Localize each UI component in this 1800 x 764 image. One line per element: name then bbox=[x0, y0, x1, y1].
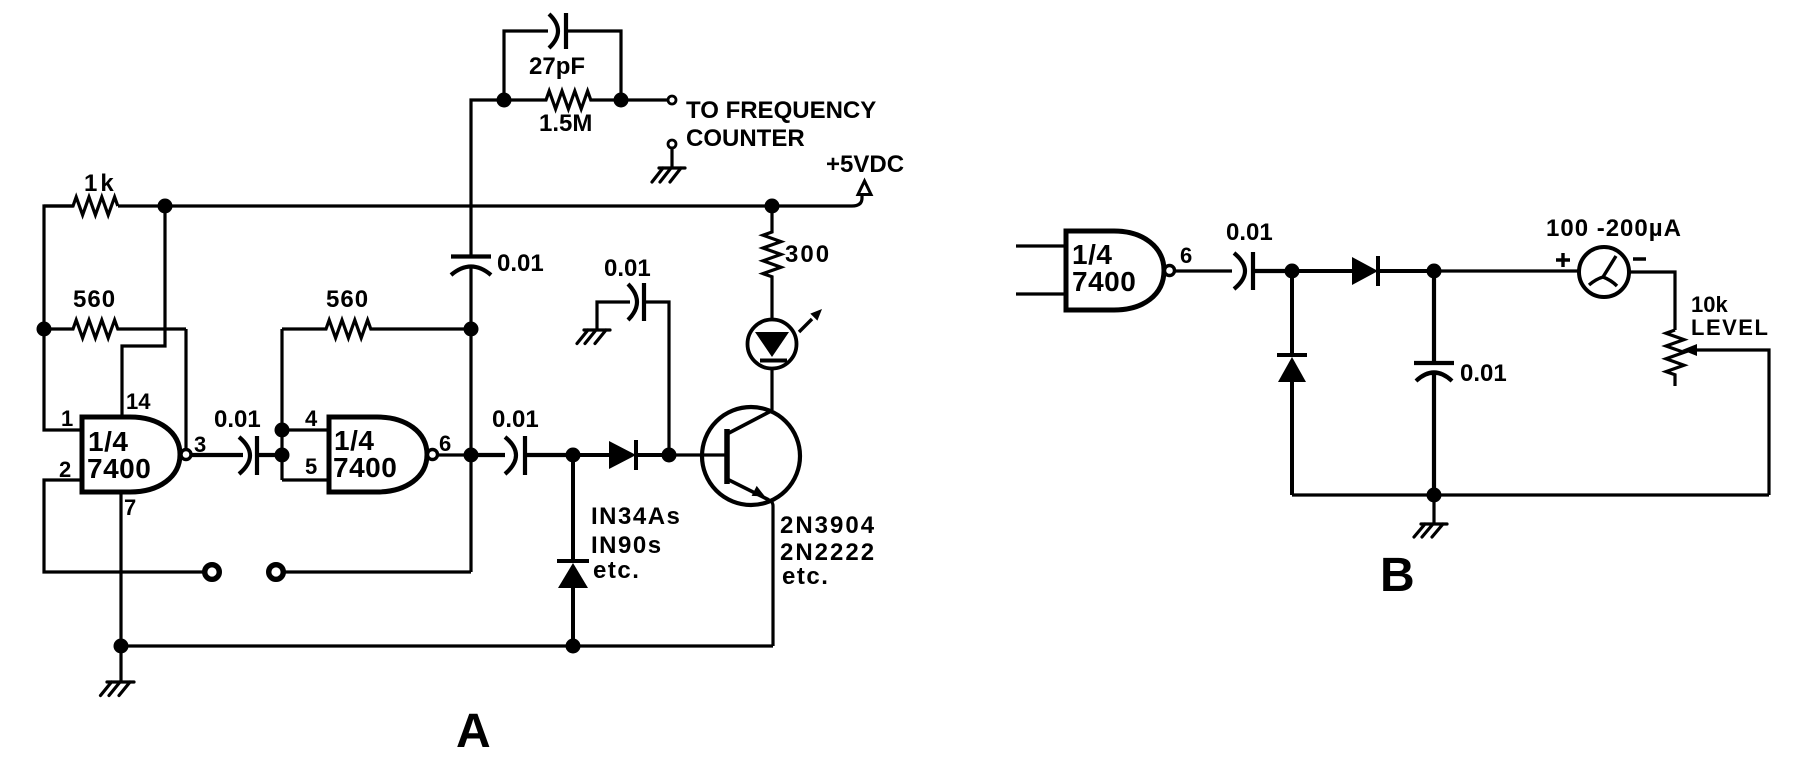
capacitor C7 0.01 B bbox=[1414, 271, 1454, 495]
diode D2 shunt 1N34A bbox=[557, 455, 589, 646]
svg-text:B: B bbox=[1380, 549, 1415, 602]
wire emitter to ground rail bbox=[771, 501, 773, 646]
U1 pin numbers 1 2 14 7 3 bbox=[59, 389, 206, 520]
capacitor C5 27pF bbox=[549, 13, 566, 49]
svg-text:0.01: 0.01 bbox=[1460, 360, 1507, 387]
svg-text:0.01: 0.01 bbox=[604, 255, 651, 282]
transistor Q1 bbox=[702, 407, 800, 505]
diode D3 series B bbox=[1292, 256, 1434, 286]
terminal counter ground bbox=[668, 140, 676, 148]
node dot left/560 bbox=[37, 322, 52, 337]
svg-text:0.01: 0.01 bbox=[492, 406, 539, 433]
label 1N34As 1N90s etc bbox=[591, 503, 681, 584]
wire left vertical to pin 1 bbox=[44, 206, 80, 430]
wire U3 output bbox=[1175, 269, 1233, 272]
wire switch to main vertical bbox=[284, 570, 471, 573]
wire bottom rail B bbox=[1292, 493, 1769, 496]
wire +5VDC rail bbox=[118, 194, 862, 206]
wire rail to pin 14 step bbox=[122, 206, 165, 417]
svg-text:560: 560 bbox=[326, 286, 369, 313]
svg-text:IN90s: IN90s bbox=[591, 532, 663, 559]
pot wiper arrow bbox=[1694, 350, 1769, 495]
wire pin 2 to switch bbox=[44, 480, 204, 572]
svg-text:7400: 7400 bbox=[1072, 266, 1136, 297]
svg-text:7: 7 bbox=[124, 495, 136, 520]
node dot rail/1k bbox=[158, 199, 173, 214]
svg-text:TO FREQUENCY: TO FREQUENCY bbox=[686, 97, 876, 124]
svg-text:LEVEL: LEVEL bbox=[1691, 315, 1769, 340]
node dot pin5 bbox=[275, 448, 290, 463]
U2 output bubble bbox=[428, 450, 438, 460]
node dot B1 bbox=[1285, 264, 1300, 279]
U3 output bubble bbox=[1165, 266, 1175, 276]
U1 output bubble bbox=[181, 450, 191, 460]
svg-text:27pF: 27pF bbox=[529, 53, 585, 80]
wire U3 inputs bbox=[1016, 246, 1066, 294]
svg-text:6: 6 bbox=[1180, 243, 1192, 268]
node dot B2 bbox=[1427, 264, 1442, 279]
node dot rail under 300 bbox=[765, 199, 780, 214]
wire junction up to C4 bbox=[646, 302, 669, 455]
wire ground rail A bbox=[121, 492, 773, 681]
capacitor C2 0.01 between gates bbox=[191, 436, 282, 475]
svg-text:0.01: 0.01 bbox=[1226, 219, 1273, 246]
ground counter bbox=[652, 148, 685, 182]
switch contact left bbox=[205, 565, 220, 580]
op-amp gate U2 1/4 7400 bbox=[329, 417, 427, 492]
svg-text:2N2222: 2N2222 bbox=[780, 539, 876, 566]
svg-text:14: 14 bbox=[126, 389, 151, 414]
wire C4 to ground bbox=[597, 302, 630, 330]
svg-text:IN34As: IN34As bbox=[591, 503, 681, 530]
wire U2 output bbox=[438, 453, 471, 456]
wire LED to collector bbox=[770, 369, 773, 411]
label 10k LEVEL bbox=[1691, 292, 1769, 340]
label 2N3904 2N2222 etc bbox=[780, 512, 876, 590]
node dot 560/main vertical bbox=[464, 322, 479, 337]
wire feedback U1 output bbox=[184, 329, 187, 455]
svg-text:1.5M: 1.5M bbox=[539, 110, 592, 137]
U2 pin numbers 4 5 6 bbox=[305, 406, 451, 479]
resistor R5 300 bbox=[763, 206, 781, 318]
svg-text:4: 4 bbox=[305, 406, 318, 431]
wire main vertical bbox=[471, 31, 621, 572]
svg-text:2: 2 bbox=[59, 457, 71, 482]
ground B bbox=[1414, 495, 1447, 537]
resistor R4 560 bbox=[282, 320, 471, 338]
svg-text:etc.: etc. bbox=[593, 557, 640, 584]
capacitor C6 0.01 bbox=[1234, 252, 1292, 290]
svg-text:300: 300 bbox=[785, 241, 831, 268]
wire meter to pot bbox=[1629, 272, 1675, 330]
meter plus minus bbox=[1556, 253, 1646, 267]
node dot diode ground bbox=[566, 639, 581, 654]
svg-text:etc.: etc. bbox=[782, 563, 829, 590]
capacitor C1 0.01 bbox=[451, 257, 491, 276]
node dot pin7 ground bbox=[114, 639, 129, 654]
switch contact right bbox=[269, 565, 284, 580]
node dot U2 out/main vertical bbox=[464, 448, 479, 463]
svg-text:2N3904: 2N3904 bbox=[780, 512, 876, 539]
svg-text:6: 6 bbox=[439, 431, 451, 456]
svg-text:A: A bbox=[456, 705, 491, 758]
node dot box left bbox=[497, 93, 512, 108]
svg-text:+5VDC: +5VDC bbox=[826, 151, 904, 178]
wire base bbox=[669, 453, 725, 456]
terminal to frequency counter bbox=[668, 96, 676, 104]
wire to meter bbox=[1434, 269, 1579, 272]
svg-text:10k: 10k bbox=[1691, 292, 1728, 317]
svg-text:1: 1 bbox=[61, 406, 73, 431]
svg-text:7400: 7400 bbox=[333, 452, 397, 483]
wire U2 input tie bbox=[282, 329, 327, 480]
svg-text:560: 560 bbox=[73, 286, 116, 313]
diode D4 shunt B bbox=[1277, 271, 1307, 495]
LED arrow bbox=[799, 319, 812, 332]
resistor R1 1k bbox=[44, 197, 118, 215]
node dot box right bbox=[614, 93, 629, 108]
resistor R2 560 bbox=[44, 320, 186, 338]
op-amp gate U1 1/4 7400 bbox=[82, 417, 180, 492]
node dot diode/base junction bbox=[662, 448, 677, 463]
LED bbox=[748, 320, 797, 369]
capacitor C4 0.01 to ground bbox=[628, 283, 644, 321]
meter M1 100-200uA bbox=[1579, 247, 1629, 297]
potentiometer R6 10k bbox=[1666, 330, 1684, 386]
svg-text:0.01: 0.01 bbox=[214, 406, 261, 433]
ground pin 7 bbox=[101, 682, 135, 696]
power +5VDC arrow bbox=[858, 181, 871, 195]
svg-text:COUNTER: COUNTER bbox=[686, 125, 805, 152]
ground C4 bbox=[577, 330, 610, 344]
wire to counter terminal bbox=[621, 98, 668, 101]
svg-text:5: 5 bbox=[305, 454, 317, 479]
capacitor C3 0.01 bbox=[471, 436, 573, 475]
diode D1 series bbox=[573, 440, 669, 470]
svg-text:7400: 7400 bbox=[87, 453, 151, 484]
node dot C3/diode junction bbox=[566, 448, 581, 463]
svg-text:0.01: 0.01 bbox=[497, 250, 544, 277]
svg-text:1k: 1k bbox=[84, 170, 117, 197]
node dot pin4 bbox=[275, 423, 290, 438]
node dot ground B bbox=[1427, 488, 1442, 503]
op-amp gate U3 1/4 7400 bbox=[1066, 231, 1164, 310]
svg-text:100 -200µA: 100 -200µA bbox=[1546, 215, 1682, 242]
resistor R3 1.5M bbox=[504, 91, 621, 109]
